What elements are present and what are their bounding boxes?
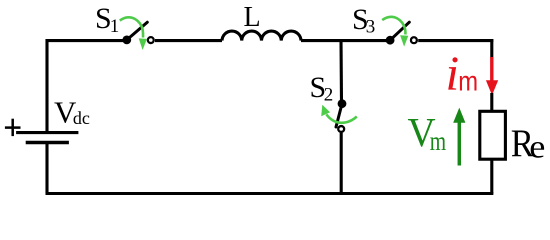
svg-text:m: m — [458, 65, 478, 97]
switch S1 blade — [127, 22, 148, 40]
svg-text:m: m — [430, 127, 447, 157]
wire: S3 to top-right corner — [418, 39, 493, 42]
svg-text:S2: S2 — [310, 71, 334, 106]
svg-text:e: e — [529, 128, 545, 165]
wire: left vertical and top run to S1 — [47, 41, 127, 132]
wire: S2 branch lower — [340, 133, 343, 194]
switch S3 contact node — [386, 36, 395, 45]
inductor L — [222, 31, 301, 41]
voltage arrow V_m (green) — [453, 108, 465, 166]
bottom wire — [46, 192, 494, 195]
S3 green arrowhead — [400, 35, 408, 46]
switch S2 contact node — [338, 99, 347, 108]
switch S3 blade — [390, 22, 409, 40]
S1 green arrowhead — [139, 38, 147, 50]
wire: right vertical upper segment — [490, 39, 493, 58]
switch S2 open contact — [338, 126, 344, 132]
wire: battery negative to bottom-left corner — [45, 144, 48, 194]
switch S3 open contact — [411, 37, 417, 43]
S2 green opening arc — [326, 114, 356, 122]
battery V_dc negative plate — [26, 141, 69, 145]
label i_m — [446, 46, 479, 101]
S3 green closing arc — [382, 17, 405, 35]
current arrow i_m (red) — [486, 57, 498, 95]
svg-text:S1: S1 — [95, 2, 119, 37]
S1 green closing arc — [120, 17, 143, 37]
wire: S1 to inductor — [155, 39, 222, 42]
wire: inductor to S3 (with S2 branch junction) — [301, 39, 390, 42]
switch S1 contact node — [122, 36, 131, 45]
label Re — [511, 122, 546, 166]
resistor Re — [480, 111, 506, 159]
switch S2 blade — [336, 104, 342, 127]
switch S1 open contact — [148, 37, 154, 43]
battery V_dc positive plate — [16, 131, 78, 134]
svg-text:L: L — [244, 2, 261, 33]
svg-text:i: i — [446, 46, 460, 101]
wire: resistor to bottom-right corner — [490, 159, 493, 194]
wire: S2 branch upper — [339, 39, 343, 104]
svg-text:Vdc: Vdc — [54, 94, 90, 129]
S2 green arrowhead — [321, 105, 330, 116]
label V_m — [408, 109, 447, 157]
label + terminal — [5, 119, 21, 136]
svg-text:S3: S3 — [352, 3, 375, 38]
wire: arrow to resistor — [490, 93, 493, 111]
